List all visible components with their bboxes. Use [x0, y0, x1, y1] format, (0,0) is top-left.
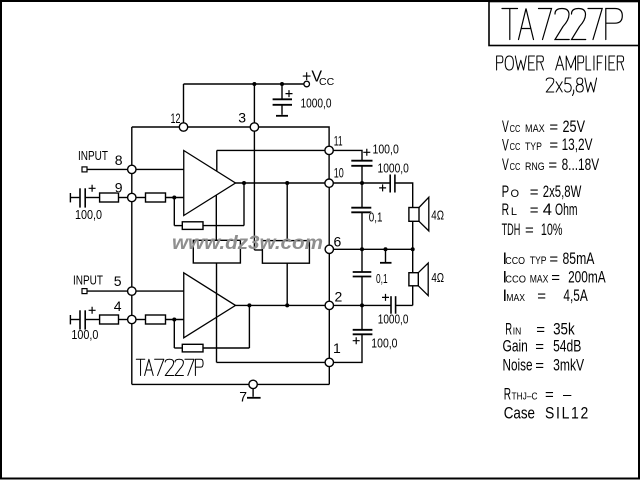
- title text TA7227P: [502, 9, 622, 40]
- pin 11: [325, 146, 333, 154]
- junction U2 output: [247, 303, 251, 307]
- svg-text:1000,0: 1000,0: [378, 312, 409, 327]
- svg-text:Case: Case: [504, 405, 535, 423]
- svg-text:=: =: [548, 157, 557, 174]
- wire R1 to pin9: [119, 197, 128, 199]
- svg-text:R: R: [505, 321, 512, 339]
- pin 6: [325, 245, 333, 253]
- svg-text:9: 9: [115, 180, 123, 196]
- wire pin11 to C3: [333, 150, 362, 160]
- resistor R6 feedback U2: [182, 344, 203, 352]
- C2 plus sign: [89, 185, 96, 192]
- svg-text:=: =: [525, 222, 534, 239]
- pin 7: [249, 380, 257, 388]
- wire C3 bottom stem: [361, 166, 363, 183]
- svg-text:CC: CC: [510, 141, 521, 153]
- capacitor C9 100,0 plates: [79, 310, 81, 329]
- spec Icco TYP = 85mA: [503, 250, 595, 268]
- wire R4 to amp U2 input: [166, 319, 184, 321]
- C9 plus sign: [89, 307, 96, 314]
- svg-text:200mA: 200mA: [568, 269, 606, 287]
- internal box B2: [262, 241, 309, 264]
- wire R3 to pin4: [119, 319, 128, 321]
- subtitle POWER AMPLIFIER: [497, 56, 624, 70]
- svg-text:8: 8: [115, 152, 123, 168]
- svg-text:=: =: [536, 322, 545, 339]
- spec Gain = 54dB: [503, 338, 582, 356]
- pin circles: [82, 81, 333, 388]
- svg-text:MAX: MAX: [525, 123, 545, 135]
- C4 plus sign: [379, 184, 386, 191]
- wire pin3 to pin11 corner: [258, 127, 329, 147]
- svg-text:RNG: RNG: [525, 161, 545, 173]
- junction C5/C6: [360, 247, 364, 251]
- junction box B2 top: [285, 181, 289, 185]
- svg-text:3: 3: [238, 110, 246, 126]
- wire left rail vertical: [131, 127, 133, 384]
- wire pin9 to resistor R2: [136, 197, 146, 199]
- wire R2 to amp U1 input: [166, 197, 184, 199]
- svg-text:12: 12: [171, 110, 181, 126]
- svg-text:1000,0: 1000,0: [378, 161, 409, 176]
- subtitle 2x5,8W: [546, 78, 596, 96]
- svg-text:100,0: 100,0: [373, 142, 399, 157]
- svg-text:Gain: Gain: [503, 338, 528, 356]
- capacitor C7 1000,0 plates: [390, 296, 392, 314]
- capacitor C5 0,1 plates: [351, 207, 371, 209]
- svg-text:35k: 35k: [553, 321, 575, 339]
- svg-text:0,1: 0,1: [369, 210, 383, 225]
- svg-text:–: –: [563, 387, 572, 404]
- wire C9 to resistor R3: [86, 319, 100, 321]
- pin 12: [179, 123, 187, 131]
- wire pin11 to pin10: [328, 155, 330, 180]
- svg-text:CC: CC: [319, 76, 335, 88]
- wire C4 to speaker LS1: [395, 183, 412, 208]
- wire U2 output to pin2: [236, 304, 326, 306]
- ground bar mid rail: [380, 262, 392, 264]
- wire C8 to pin1: [333, 334, 362, 362]
- wire pin12 to left rail: [132, 126, 180, 128]
- capacitor C2 100,0 plates: [79, 188, 81, 207]
- C7 plus sign: [382, 294, 389, 301]
- junction box B2 bottom: [285, 303, 289, 307]
- wire pin10 to pin6: [328, 187, 330, 245]
- wire U1 top connector to pin11: [217, 149, 325, 151]
- wire capacitor stem to VCC rail: [281, 84, 283, 99]
- svg-text:=: =: [535, 358, 544, 375]
- svg-text:4Ω: 4Ω: [431, 270, 444, 285]
- svg-text:SIL12: SIL12: [545, 405, 590, 423]
- spec RIN = 35k: [505, 321, 575, 339]
- wire pin8 to amp U1: [136, 168, 184, 170]
- pin 1: [325, 358, 333, 366]
- svg-text:0,1: 0,1: [376, 271, 388, 286]
- wire pin5 to amp U2: [136, 290, 184, 292]
- svg-text:1: 1: [333, 340, 341, 356]
- svg-text:10: 10: [334, 165, 344, 181]
- op-amp U2 triangle: [184, 273, 236, 338]
- wire pin6 to pin2: [328, 253, 330, 301]
- wire input1 to pin8: [87, 168, 128, 170]
- wire C6 top stem: [361, 249, 363, 271]
- svg-text:54dB: 54dB: [553, 338, 581, 356]
- speaker LS2 box: [409, 273, 418, 286]
- svg-text:100,0: 100,0: [75, 207, 102, 222]
- svg-text:V: V: [502, 137, 509, 155]
- svg-text:=: =: [530, 202, 539, 219]
- svg-text:=: =: [549, 119, 558, 136]
- junction feedback tap U2: [172, 318, 176, 322]
- VCC terminal: [304, 81, 310, 87]
- capacitor C1 1000,0 plates: [273, 98, 292, 100]
- wire bottom ground rail: [132, 383, 329, 385]
- wire speaker LS2 top stem: [412, 249, 414, 272]
- input capacitor C2 terminal bar: [69, 193, 71, 202]
- resistor R3: [100, 315, 119, 324]
- wire pin3 lower tail: [253, 131, 255, 250]
- svg-text:11: 11: [334, 133, 343, 149]
- wire VCC top rail: [184, 83, 304, 85]
- wire LS1 bottom stem: [412, 221, 414, 249]
- resistor R2: [146, 193, 166, 202]
- capacitor C6 0,1 plates: [353, 271, 372, 273]
- wire box B2 bottom riser: [286, 263, 288, 305]
- wire C1 bottom stem: [281, 105, 283, 115]
- svg-text:13,2V: 13,2V: [562, 136, 593, 154]
- junction pin3 riser/VCC: [252, 82, 256, 86]
- wire feedback riser U1: [243, 183, 245, 226]
- svg-text:=: =: [545, 387, 554, 404]
- ground stem at pin7: [252, 388, 254, 396]
- junction C1/VCC: [280, 82, 284, 86]
- svg-text:4: 4: [114, 298, 122, 314]
- wire riser pin3 to VCC rail: [253, 84, 255, 123]
- wire input2 to pin5: [87, 290, 127, 292]
- pin 10: [325, 179, 333, 187]
- svg-text:4Ω: 4Ω: [431, 208, 444, 223]
- svg-text:Ohm: Ohm: [555, 201, 578, 219]
- pin 4: [128, 315, 136, 323]
- svg-text:TDH: TDH: [502, 221, 521, 239]
- svg-text:7: 7: [239, 389, 247, 405]
- pin 5: [128, 287, 136, 295]
- svg-text:8...18V: 8...18V: [562, 156, 600, 174]
- junction C3/C5: [360, 181, 364, 185]
- spec IMAX = 4,5A: [503, 287, 588, 305]
- speaker LS1 horn: [419, 197, 429, 231]
- svg-text:MAX: MAX: [530, 274, 549, 286]
- resistor R4: [146, 315, 166, 324]
- svg-text:CCO: CCO: [505, 255, 525, 267]
- node label +VCC: [302, 69, 335, 89]
- svg-text:V: V: [502, 118, 509, 136]
- junction dots: [172, 82, 414, 322]
- svg-text:10%: 10%: [541, 221, 563, 239]
- C1 plus sign: [286, 90, 293, 97]
- svg-text:INPUT: INPUT: [73, 273, 103, 288]
- svg-text:100,0: 100,0: [71, 327, 98, 342]
- svg-text:85mA: 85mA: [563, 250, 595, 268]
- pin 8: [128, 165, 136, 173]
- wire pin12 to pin3: [188, 126, 251, 128]
- wire pin1 left horizontal: [217, 361, 326, 363]
- svg-text:R: R: [502, 201, 510, 219]
- ground bar at pin7: [247, 397, 261, 399]
- svg-text:THJ–C: THJ–C: [512, 391, 538, 403]
- svg-text:CCO: CCO: [505, 274, 526, 286]
- junction feedback tap U1: [172, 196, 176, 200]
- spec Po = 2x5,8W: [502, 183, 582, 201]
- wire C6 bottom stem: [361, 277, 363, 306]
- wire C7 to LS2: [396, 304, 413, 306]
- spec TDH = 10%: [502, 221, 563, 239]
- wire pin6 rail: [333, 248, 412, 250]
- svg-text:O: O: [511, 188, 520, 200]
- spec Vcc RNG = 8...18V: [502, 156, 599, 174]
- chip label TA7227P: [136, 359, 203, 375]
- spec Vcc TYP = 13,2V: [502, 136, 593, 155]
- svg-text:25V: 25V: [563, 118, 586, 136]
- svg-text:CC: CC: [510, 123, 521, 135]
- wire C5 bottom stem: [361, 212, 363, 249]
- svg-text:R: R: [504, 386, 511, 404]
- speaker LS2 horn: [418, 263, 428, 296]
- svg-text:V: V: [502, 156, 509, 174]
- ground bar below C1: [276, 115, 288, 117]
- svg-text:INPUT: INPUT: [78, 148, 108, 163]
- wire feedback right lead U1: [203, 225, 244, 227]
- ground stem mid rail: [385, 249, 387, 262]
- wire pin2 to C7: [333, 304, 390, 306]
- wire feedback riser U2: [248, 305, 250, 348]
- spec Rthj-c = -: [504, 386, 572, 404]
- svg-text:4,5A: 4,5A: [563, 287, 587, 305]
- spec Noise = 3mkV: [503, 357, 585, 375]
- wire C9 left lead: [70, 319, 79, 321]
- svg-text:=: =: [549, 251, 558, 268]
- svg-text:=: =: [535, 339, 544, 356]
- C3 plus sign: [363, 149, 370, 156]
- wire feedback drop U1: [173, 198, 175, 226]
- wire box B2 top riser: [286, 183, 288, 241]
- svg-text:4: 4: [543, 201, 552, 219]
- svg-text:MAX: MAX: [506, 292, 525, 304]
- svg-text:Noise: Noise: [503, 357, 533, 375]
- resistor R1: [100, 193, 119, 202]
- svg-text:TYP: TYP: [525, 141, 542, 153]
- wire U1 bottom edge connector to box: [215, 195, 217, 240]
- wire pin3 tail to box B2: [254, 249, 262, 251]
- wire U1 top edge connector vertical: [216, 150, 218, 171]
- wire feedback left lead U2: [174, 347, 182, 349]
- wire box B1 bottom to pin1 wire: [216, 263, 218, 362]
- svg-text:=: =: [549, 137, 558, 154]
- wire pin4 to resistor R4: [136, 319, 146, 321]
- wire C2 left lead: [70, 197, 79, 199]
- pin 3: [250, 123, 258, 131]
- pin 2: [325, 301, 333, 309]
- wire LS2 bottom stem: [412, 286, 414, 306]
- svg-text:=: =: [551, 270, 560, 287]
- svg-text:2: 2: [335, 289, 343, 305]
- speaker LS1 box: [409, 208, 419, 222]
- wire feedback drop U2: [173, 320, 175, 349]
- spec Icco MAX = 200mA: [503, 269, 606, 287]
- svg-text:100,0: 100,0: [371, 336, 397, 351]
- svg-text:=: =: [530, 184, 539, 201]
- input terminal 1: [82, 167, 87, 172]
- capacitor C8 100,0 plates: [353, 329, 373, 331]
- wire U1 output to pin10: [236, 182, 326, 184]
- svg-text:1000,0: 1000,0: [301, 96, 332, 111]
- svg-text:5: 5: [114, 273, 122, 289]
- wire C8 top stem: [361, 305, 363, 329]
- svg-text:L: L: [511, 206, 517, 218]
- capacitor C4 1000,0 plates: [389, 175, 391, 193]
- svg-text:6: 6: [334, 234, 342, 250]
- svg-text:2x5,8W: 2x5,8W: [543, 183, 582, 201]
- spec RL = 4 Ohm: [502, 201, 578, 219]
- pin 9: [128, 193, 136, 201]
- wire pin2 to pin1: [328, 309, 330, 358]
- svg-text:www.dz3w.com: www.dz3w.com: [172, 233, 323, 254]
- junction LS1/LS2: [411, 247, 415, 251]
- op-amp U1 triangle: [184, 151, 236, 216]
- wire pin1 bottom stub: [328, 366, 330, 384]
- svg-text:TYP: TYP: [530, 255, 547, 267]
- wire feedback left lead U1: [174, 225, 182, 227]
- capacitor C3 100,0 plates: [351, 160, 372, 162]
- svg-text:IN: IN: [513, 326, 522, 338]
- input capacitor C9 terminal bar: [69, 315, 71, 324]
- svg-text:P: P: [502, 183, 510, 201]
- wire feedback right lead U2: [203, 347, 249, 349]
- spec Vcc MAX = 25V: [502, 118, 585, 136]
- wire riser pin12 to VCC rail: [183, 84, 185, 123]
- wire C2 to resistor R1: [86, 197, 100, 199]
- wire C5 top stem: [361, 183, 363, 207]
- internal box B1: [193, 240, 240, 263]
- svg-text:=: =: [537, 288, 546, 305]
- C8 plus sign: [353, 337, 360, 344]
- junction C6/C8: [360, 303, 364, 307]
- title box: [489, 2, 639, 46]
- input terminal 2: [82, 289, 87, 294]
- junction U1 output: [242, 181, 246, 185]
- resistor R5 feedback U1: [182, 222, 203, 230]
- svg-text:CC: CC: [510, 161, 521, 173]
- spec Case SIL12: [504, 405, 590, 423]
- junction ground mid: [384, 247, 388, 251]
- svg-text:3mkV: 3mkV: [553, 357, 584, 375]
- wire pin10 to C4: [333, 182, 390, 184]
